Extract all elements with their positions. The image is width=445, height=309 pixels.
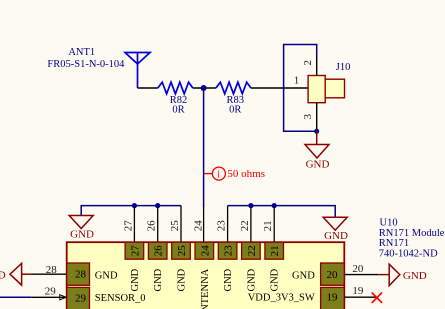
svg-text:21: 21 <box>262 220 274 231</box>
connector J10 tab <box>325 79 344 98</box>
svg-text:27: 27 <box>122 220 134 232</box>
svg-text:24: 24 <box>192 220 204 232</box>
IC U10 body <box>67 242 345 309</box>
svg-text:U10: U10 <box>380 217 398 228</box>
wire right GND bus <box>228 206 336 218</box>
svg-text:740-1042-ND: 740-1042-ND <box>379 248 438 259</box>
svg-text:GND: GND <box>270 268 281 291</box>
wire R82 to R83 <box>193 87 216 89</box>
ground GND right <box>323 217 347 230</box>
junction dot pin 27 <box>132 203 137 208</box>
U10 pin 28 box <box>67 263 90 285</box>
svg-text:GND: GND <box>153 268 164 291</box>
svg-text:J10: J10 <box>336 62 351 73</box>
U10 pin 28 wire <box>31 273 67 275</box>
U10 pin 21 box <box>265 242 284 259</box>
svg-text:D: D <box>0 270 6 281</box>
U10 pin 21 stub <box>273 206 275 243</box>
U10 pin 22 box <box>242 242 261 259</box>
note directive 50 ohms <box>204 167 226 180</box>
J10 pin 2 <box>316 56 318 76</box>
junction dot at J10 pin 3 <box>314 129 319 134</box>
svg-text:21: 21 <box>269 245 281 256</box>
junction dot pin 26 <box>155 203 160 208</box>
svg-text:GND: GND <box>177 268 188 291</box>
svg-text:3: 3 <box>302 114 314 120</box>
svg-text:24: 24 <box>199 245 211 257</box>
svg-text:GND: GND <box>95 271 118 282</box>
ground GND arrow at pin 20 <box>389 264 400 285</box>
U10 pin 26 box <box>148 242 167 259</box>
U10 pin 19 box <box>321 287 345 309</box>
wire loop pin2 to pin3 <box>284 45 317 132</box>
svg-text:FR05-S1-N-0-104: FR05-S1-N-0-104 <box>47 59 125 70</box>
svg-text:i: i <box>217 169 220 180</box>
U10 pin 19 wire <box>344 296 376 298</box>
no-connect X at pin 19 <box>372 293 382 303</box>
junction dot pin 21 <box>272 203 277 208</box>
antenna ANT1 <box>125 53 150 89</box>
svg-text:19: 19 <box>352 285 364 297</box>
resistor R83 <box>216 82 251 94</box>
U10 pin 25 box <box>172 242 191 259</box>
wire antenna to R82 <box>138 87 158 89</box>
svg-text:GND: GND <box>130 268 141 291</box>
U10 pin 27 box <box>125 242 144 259</box>
svg-text:GND: GND <box>403 270 427 282</box>
svg-text:22: 22 <box>239 220 251 231</box>
svg-text:28: 28 <box>46 264 58 276</box>
svg-text:VDD_3V3_SW: VDD_3V3_SW <box>248 292 315 303</box>
U10 pin 29 wire <box>0 296 31 298</box>
junction dot pin 22 <box>248 203 253 208</box>
svg-text:28: 28 <box>75 269 87 281</box>
svg-text:ANTENNA: ANTENNA <box>200 268 211 309</box>
port D arrow at pin 28 <box>10 263 31 285</box>
U10 pin 20 box <box>321 263 345 285</box>
svg-text:20: 20 <box>352 263 364 275</box>
U10 pin 25 stub <box>180 206 182 243</box>
J10 pin 3 <box>316 103 318 132</box>
svg-text:25: 25 <box>169 220 181 232</box>
svg-text:50 ohms: 50 ohms <box>227 168 265 180</box>
U10 pin 29 box <box>67 287 90 309</box>
svg-text:GND: GND <box>324 230 348 242</box>
U10 pin 23 stub <box>227 206 229 243</box>
wire left GND bus <box>81 206 181 216</box>
svg-text:GND: GND <box>292 270 315 281</box>
svg-text:20: 20 <box>327 269 339 281</box>
svg-text:26: 26 <box>153 245 165 257</box>
connector J10 body <box>308 76 325 103</box>
svg-text:GND: GND <box>70 229 94 241</box>
svg-text:29: 29 <box>45 286 57 298</box>
resistor R82 <box>158 82 193 94</box>
U10 pin 20 wire <box>344 274 378 276</box>
svg-text:23: 23 <box>223 245 235 257</box>
svg-text:26: 26 <box>146 220 158 232</box>
wire R83 to J10 pin 1 <box>251 87 308 89</box>
svg-text:2: 2 <box>302 60 314 66</box>
ground GND below J10 <box>305 131 329 158</box>
svg-text:0R: 0R <box>229 104 241 115</box>
svg-text:27: 27 <box>129 245 141 257</box>
U10 pin 22 stub <box>250 206 252 243</box>
svg-text:ANT1: ANT1 <box>68 47 95 58</box>
svg-text:GND: GND <box>223 268 234 291</box>
U10 pin 27 stub <box>133 206 135 243</box>
U10 pin 26 stub <box>157 206 159 243</box>
ground GND left <box>69 216 93 229</box>
svg-text:GND: GND <box>306 159 330 171</box>
junction dot antenna node <box>201 85 207 91</box>
U10 pin 23 box <box>218 242 237 259</box>
pin 29 input arrowhead <box>60 295 67 300</box>
wire antenna node to U10 pin 24 <box>203 88 205 206</box>
svg-text:23: 23 <box>216 220 228 232</box>
svg-text:29: 29 <box>75 292 87 304</box>
svg-text:19: 19 <box>327 292 339 304</box>
svg-text:GND: GND <box>246 268 257 291</box>
svg-text:0R: 0R <box>172 104 184 115</box>
svg-text:25: 25 <box>176 245 188 257</box>
svg-text:SENSOR_0: SENSOR_0 <box>95 293 146 304</box>
svg-text:1: 1 <box>294 75 300 87</box>
svg-text:22: 22 <box>246 245 258 256</box>
U10 pin 24 box <box>195 242 214 259</box>
